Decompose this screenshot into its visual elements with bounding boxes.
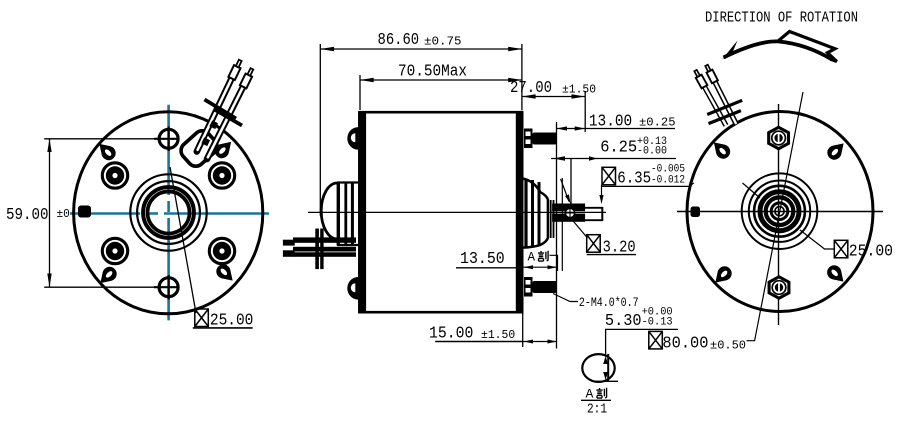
right view: wire 1 with terminal — [693, 69, 726, 126]
right view: wire tie bar 2 — [709, 111, 741, 124]
right view: hex nut bottom — [769, 277, 789, 298]
svg-text:6.25: 6.25 — [600, 139, 637, 158]
middle view: exit wire terminals — [283, 240, 295, 257]
left view: teardrop hole upper-left — [94, 139, 118, 163]
middle view: shaft set screw circle — [565, 208, 575, 218]
left view: top screw hole with cross — [154, 127, 178, 152]
svg-text:-0.00: -0.00 — [637, 146, 667, 158]
dimension 3.20: leader — [571, 219, 588, 239]
left view: grommet hole upper-left — [102, 163, 127, 188]
right view: hex nut top — [769, 127, 789, 148]
svg-text:A: A — [528, 251, 536, 265]
section label A-pou near 13.50 — [528, 251, 558, 272]
left view: wire connector strain relief — [178, 127, 221, 169]
svg-text:±0.50: ±0.50 — [710, 339, 746, 353]
dimension 6.35: diameter box symbol — [602, 167, 616, 185]
dimension 70.50Max: extension line — [359, 75, 361, 110]
left view: wire 2 with terminal — [207, 67, 255, 159]
section view: D-cut shaft circle — [582, 354, 618, 382]
svg-text:80.00: 80.00 — [662, 335, 708, 354]
dimension 70.50Max: dimension line with arrows — [360, 78, 522, 82]
svg-text:±1.50: ±1.50 — [481, 328, 515, 342]
dimension 6.25: extension line at shaft — [570, 159, 572, 207]
dimension 59.00: vertical dimension line with arrows — [47, 139, 51, 287]
svg-text:DIRECTION OF ROTATION: DIRECTION OF ROTATION — [705, 10, 858, 27]
body edge extension below — [522, 314, 524, 348]
svg-text:15.00: 15.00 — [429, 325, 473, 344]
middle view: top threaded stud M4 — [524, 129, 557, 149]
middle view: bottom threaded stud M4 — [524, 277, 557, 297]
svg-text:13.00: 13.00 — [589, 113, 632, 132]
dimension 86.60: dimension line with arrows — [320, 47, 522, 51]
left view: wire tie bar 2 — [215, 110, 243, 126]
left view: teardrop hole lower-left — [95, 264, 119, 288]
svg-text:-0.13: -0.13 — [642, 317, 673, 329]
left view: teal vertical centerline — [167, 105, 170, 321]
dimension right 25.00: text — [849, 243, 893, 262]
dimension 15.00: text and line — [429, 325, 524, 344]
dimension 6.35: underline — [602, 183, 694, 186]
dimension 3.20: diameter box symbol — [587, 235, 601, 253]
middle view: right bell profile — [522, 179, 548, 248]
dimension 13.00: extension line — [556, 122, 558, 349]
label DIRECTION OF ROTATION — [705, 10, 858, 27]
svg-text:-0.012: -0.012 — [651, 175, 685, 187]
middle view: left bell dome — [321, 183, 337, 239]
svg-text:2:1: 2:1 — [587, 402, 607, 418]
right view: vertical centerline — [778, 104, 780, 325]
dimension 13.50: arrows to section plane — [524, 265, 558, 269]
left view: teardrop hole upper-right — [212, 137, 236, 161]
right view: outer ellipse — [687, 112, 873, 312]
dimension 15.00: arrows — [524, 340, 558, 344]
right view: wire tie bar 1 — [707, 100, 742, 114]
right view: black notch on left rim — [691, 207, 701, 218]
middle view: exit wire tick bars — [315, 229, 323, 270]
dimension 80.00: diameter box symbol — [649, 331, 663, 349]
dimension 6.25: dimension line with outside arrows — [551, 156, 676, 160]
middle view: motor body rectangle — [360, 112, 523, 312]
middle view: shaft hub black block — [552, 204, 585, 222]
dimension 59.00: text — [6, 206, 77, 225]
right view: teardrop hole lower-right — [824, 262, 848, 286]
svg-text:13.50: 13.50 — [460, 250, 505, 269]
svg-text:6.35: 6.35 — [617, 170, 651, 189]
right view: teardrop hole lower-left — [710, 263, 734, 287]
dimension 27.00: dimension line with arrows — [522, 94, 585, 98]
middle view: exit wire bands — [293, 237, 356, 256]
svg-text:±1.50: ±1.50 — [562, 83, 596, 97]
left view: bottom screw hole with cross — [154, 275, 178, 300]
svg-text:27.00: 27.00 — [510, 79, 552, 98]
left view: black notch on left rim — [78, 206, 91, 218]
left view: grommet hole lower-left — [102, 238, 127, 263]
left view: outer ellipse (motor face D80) — [74, 112, 263, 314]
right view: teardrop hole upper-left — [709, 137, 733, 161]
dimension 86.60: text — [378, 31, 462, 50]
svg-text:86.60: 86.60 — [378, 31, 420, 50]
dimension 6.35: text — [617, 164, 685, 189]
right view: leader for 6.35 pointing to bearing rings — [743, 183, 761, 198]
left view: text 25.00 with underline — [193, 312, 254, 331]
right view: wire 2 with terminal — [704, 64, 737, 124]
dimension 13.50: text and line — [456, 250, 524, 269]
section view label A-pou 2:1 — [581, 387, 611, 418]
middle view: horizontal centerline — [308, 211, 606, 213]
dimension right 25.00: leader — [800, 230, 834, 249]
dimension 5.30: text — [605, 307, 673, 332]
right view: horizontal centerline — [677, 211, 883, 213]
left view: wire 1 with terminal — [197, 59, 244, 152]
dimension right 25.00: diameter box symbol — [834, 240, 848, 257]
dimension 13.00: dimension line with arrows — [557, 126, 676, 130]
svg-text:±0.25: ±0.25 — [639, 116, 676, 130]
middle view: left end cap thick bar — [358, 111, 366, 314]
left view: diameter box symbol 25.00 — [195, 309, 209, 327]
rotation curved arrow — [722, 32, 837, 62]
svg-text:25.00: 25.00 — [849, 243, 893, 262]
dimension 6.25: leader arrow to bearing — [561, 179, 571, 204]
svg-text:70.50Max: 70.50Max — [398, 63, 467, 82]
dimension 6.35: leader with down arrow — [599, 185, 603, 204]
dimension 27.00: extension line right — [584, 91, 586, 132]
left view: wire tie bar 1 — [205, 100, 237, 119]
left view: grommet hole upper-right — [209, 163, 234, 188]
middle view: left bolt bump top — [347, 127, 358, 150]
section plane extension line — [561, 178, 563, 271]
svg-text:5.30: 5.30 — [605, 312, 642, 331]
left view: wire crimp marks — [201, 120, 218, 146]
dimension 6.25: text — [600, 136, 667, 158]
right view: teardrop hole upper-right — [824, 138, 848, 162]
middle view: shaft — [585, 207, 602, 221]
middle view: bearing boss — [551, 200, 554, 238]
dimension 80.00: text — [662, 335, 746, 354]
left view: center boss concentric rings — [130, 174, 206, 250]
middle view: right bell ribs — [526, 180, 539, 248]
dimension 27.00: text — [510, 79, 596, 98]
dimension 3.20: text with underline — [587, 239, 636, 258]
left view: teardrop hole lower-right — [213, 261, 237, 285]
right view: center shaft rings — [742, 173, 818, 249]
middle view: left bolt bump bottom — [347, 277, 358, 300]
dimension 70.50Max: text — [398, 63, 467, 82]
dimension 5.30: L-shaped leader — [606, 329, 678, 354]
left view: teal horizontal centerline — [70, 212, 269, 215]
dimension 86.60: extension lines — [320, 44, 522, 216]
label 2-M4.0*0.7 with leader — [553, 294, 639, 311]
middle view: left bell ribs — [337, 182, 358, 245]
left view: leader line for 25.00 — [170, 167, 196, 313]
middle view: right end cap thick bar — [516, 111, 524, 314]
svg-text:59.00: 59.00 — [6, 206, 49, 225]
dimension 80.00: long leader — [747, 92, 804, 341]
svg-text:A: A — [586, 387, 594, 402]
left view: grommet hole lower-right — [209, 238, 234, 263]
svg-text:±0.75: ±0.75 — [424, 35, 462, 49]
svg-text:±0.: ±0. — [57, 207, 77, 221]
svg-text:2-M4.0*0.7: 2-M4.0*0.7 — [579, 296, 639, 310]
dimension 13.00: text — [589, 113, 676, 132]
dimension 59.00: extension lines — [44, 139, 159, 287]
